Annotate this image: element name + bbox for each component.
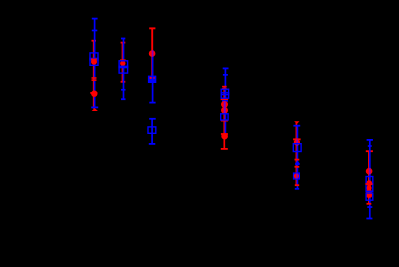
cluster C red circle marker <box>149 50 156 57</box>
cluster G red cap over squares <box>366 183 373 185</box>
cluster E red circle marker 1 <box>221 101 228 108</box>
cluster B blue bottom cap <box>121 98 126 100</box>
cluster F blue top cap <box>293 125 300 127</box>
cluster E red bottom cap <box>221 148 228 150</box>
cluster G red cap lower 1 <box>366 192 372 194</box>
cluster A red cap near circle <box>90 92 97 94</box>
cluster A red circle marker 2 <box>91 91 97 97</box>
cluster A blue square marker 1 <box>90 53 98 60</box>
cluster F red cap mid 1 <box>295 159 300 161</box>
cluster E blue top cap <box>223 68 229 70</box>
cluster E red tick 2 <box>222 88 227 90</box>
cluster G blue square marker 1 <box>366 177 373 184</box>
cluster E blue square marker 1 <box>221 89 228 94</box>
cluster E blue cap <box>222 100 228 102</box>
cluster F red error bar line <box>296 123 298 185</box>
cluster G blue top cap <box>367 139 373 141</box>
cluster C blue filled square marker <box>148 76 156 83</box>
cluster C blue error bar line <box>152 52 154 103</box>
cluster A red error bar line <box>93 41 95 109</box>
cluster C red bottom cap <box>150 77 155 79</box>
cluster A blue inner tick <box>92 30 98 32</box>
cluster B blue square marker 1 <box>119 61 128 68</box>
cluster F blue error bar line <box>297 126 299 189</box>
cluster D blue top cap <box>149 118 156 120</box>
cluster E blue square marker 3 <box>221 114 228 120</box>
cluster F blue filled square marker 2 <box>293 172 300 179</box>
cluster B red bottom cap <box>121 81 126 83</box>
cluster B blue error bar line <box>123 39 125 100</box>
cluster A red up-triangle limit marker <box>92 108 98 111</box>
cluster A red tick 1 <box>92 77 97 79</box>
cluster G red circle marker 4 <box>366 189 371 194</box>
cluster C blue line over cap <box>152 77 154 80</box>
cluster F red down-triangle limit marker <box>294 121 299 124</box>
cluster G blue inner tick <box>368 145 372 147</box>
cluster B red circle marker <box>120 61 125 66</box>
cluster G blue square marker 3 <box>366 193 373 200</box>
cluster G red cap lower 2 <box>366 196 372 198</box>
cluster G red error bar line <box>368 151 370 204</box>
cluster G blue square marker 2 <box>366 184 373 191</box>
cluster D blue bottom cap <box>149 143 156 145</box>
cluster A blue square marker 2 <box>90 58 98 65</box>
cluster F blue square marker 1 <box>293 144 301 152</box>
cluster A red inner cap <box>91 59 97 61</box>
cluster E red error bar line <box>223 87 225 149</box>
cluster A blue bottom cap <box>91 107 98 109</box>
cluster F red circle marker 1 <box>294 139 300 145</box>
cluster E blue square marker 2 <box>221 93 228 98</box>
cluster A red tick 2 <box>92 79 97 81</box>
cluster G blue error bar line <box>369 140 371 219</box>
cluster A red top cap <box>92 40 97 42</box>
cluster B red inner cap <box>120 59 126 61</box>
cluster E blue inner tick <box>223 74 228 76</box>
cluster F blue diamond tick <box>295 161 300 166</box>
cluster E red cap at lower circle <box>221 133 228 135</box>
cluster F blue tick <box>295 163 300 165</box>
cluster E red cap mid <box>221 120 228 122</box>
cluster E purple line over circles <box>224 101 226 113</box>
cluster G blue bottom cap <box>366 218 372 220</box>
cluster B blue square marker 2 <box>119 66 128 73</box>
cluster B blue top cap <box>121 38 125 40</box>
cluster C red error bar line <box>151 28 153 78</box>
cluster G blue lower tick <box>367 206 372 208</box>
cluster E red cap below squares <box>221 98 229 100</box>
cluster E blue error bar line <box>225 68 227 133</box>
cluster A blue error bar line <box>94 19 96 108</box>
cluster E red circle marker 3 <box>221 133 228 140</box>
cluster B blue inner tick <box>121 89 126 91</box>
cluster E red tick 1 <box>222 86 227 88</box>
cluster C blue bottom cap <box>149 102 155 104</box>
cluster F red bottom cap <box>295 184 299 186</box>
cluster E red circle marker 2 <box>221 107 228 114</box>
cluster G red top cap <box>366 150 373 152</box>
cluster G red bottom cap <box>367 203 372 205</box>
cluster G red circle marker 5 <box>366 192 372 198</box>
cluster B red error bar line <box>122 43 124 82</box>
cluster F red cap upper <box>293 138 301 140</box>
cluster F blue bottom cap <box>295 188 299 190</box>
cluster G red circle marker 3 <box>366 185 371 190</box>
cluster C red top cap <box>149 27 155 29</box>
cluster A blue top cap <box>92 18 98 20</box>
cluster G red circle marker 1 <box>366 168 373 175</box>
cluster A red circle marker 1 <box>91 59 97 65</box>
cluster D blue square marker <box>148 127 156 133</box>
cluster F red circle marker 2 <box>294 173 299 178</box>
cluster F red cap mid 2 <box>295 166 300 168</box>
cluster G red circle marker 2 <box>366 180 372 186</box>
cluster D blue error bar line <box>151 119 153 144</box>
cluster B red top cap <box>121 42 126 44</box>
